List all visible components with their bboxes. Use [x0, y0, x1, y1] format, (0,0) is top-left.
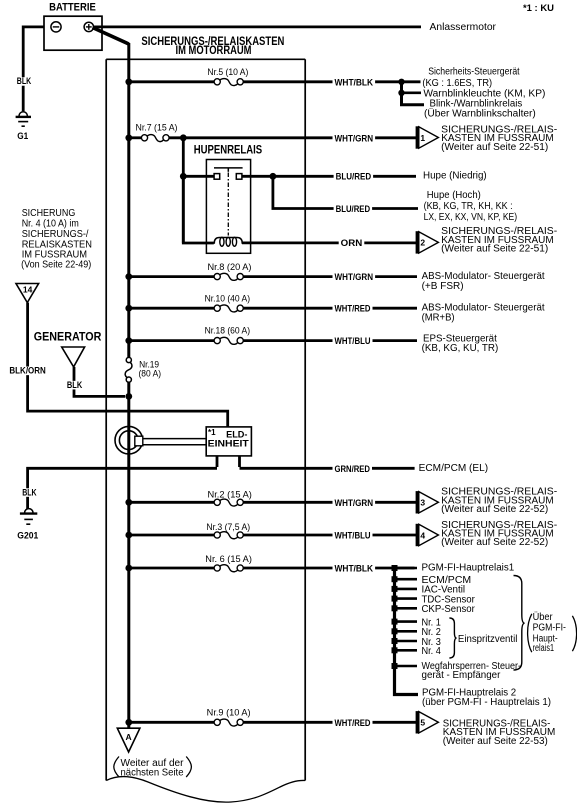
fuse Nr.2 (15 A) [214, 499, 220, 505]
connector triangle generator [62, 347, 85, 367]
fuse Nr.8 (20 A) [214, 274, 220, 280]
svg-text:(Über Warnblinkschalter): (Über Warnblinkschalter) [424, 108, 536, 120]
relay HUPENRELAIS box [206, 160, 250, 254]
svg-text:(KB, KG, KU, TR): (KB, KG, KU, TR) [422, 343, 499, 354]
wire stub to ECM/PCM [395, 578, 418, 581]
svg-text:LX, EX, KX, VN, KP, KE): LX, EX, KX, VN, KP, KE) [424, 212, 517, 223]
svg-text:nächsten Seite: nächsten Seite [121, 768, 184, 779]
svg-text:(Weiter auf Seite 22-52): (Weiter auf Seite 22-52) [441, 504, 548, 515]
wire bus to fuse Nr.18 [129, 339, 215, 342]
svg-text:BLK: BLK [17, 76, 32, 86]
node junction bus / fuse Nr.2 row [125, 499, 132, 506]
svg-text:(KG : 1.6ES, TR): (KG : 1.6ES, TR) [422, 78, 492, 89]
svg-text:Nr.10 (40 A): Nr.10 (40 A) [205, 294, 251, 304]
wire bus to fuse Nr.7 [129, 136, 142, 139]
node junction relay switch branch [180, 173, 187, 180]
svg-text:Einspritzventil: Einspritzventil [458, 634, 518, 645]
node junction bus / fuse Nr.8 row [125, 273, 132, 280]
wire stub to IAC-Ventil [395, 588, 418, 591]
svg-text:WHT/BLU: WHT/BLU [335, 531, 371, 541]
svg-text:ORN: ORN [341, 238, 363, 248]
svg-text:BLK: BLK [67, 380, 83, 390]
svg-text:(MR+B): (MR+B) [422, 313, 455, 324]
svg-text:BLK/ORN: BLK/ORN [9, 366, 45, 376]
label BLK battery ground wire [15, 77, 33, 86]
sensor twin leads to ELD unit [143, 438, 207, 440]
label BLU/RED Hupe Niedrig [334, 173, 374, 182]
label WHT/GRN row Nr.8 [333, 273, 376, 282]
fuse Nr.10 (40 A) [214, 305, 220, 311]
wire relay feed to switch contact [183, 175, 214, 178]
node junction generator / bus [125, 393, 132, 400]
note Weiter auf der naechsten Seite [114, 757, 119, 778]
wire fuse Nr.8 to ABS-Modulator [243, 275, 417, 278]
connector triangle 14 [16, 284, 39, 303]
wire stub to Nr. 4 [395, 649, 418, 652]
svg-text:Hupe (Hoch): Hupe (Hoch) [427, 190, 481, 201]
brace Einspritzventil group Nr.1-4 [449, 618, 456, 658]
ELD pin right / wire GRN/RED to ECM/PCM (EL) [240, 456, 415, 468]
label WHT/RED row Nr.10 [333, 305, 373, 314]
node junction bus / fuse Nr.9 row [125, 719, 132, 726]
svg-text:(Weiter auf Seite 22-52): (Weiter auf Seite 22-52) [441, 537, 548, 548]
wire fuse Nr.9 to connector 5 [243, 721, 417, 724]
fuse Nr.18 (60 A) [214, 338, 220, 344]
svg-text:Anlassermotor: Anlassermotor [430, 21, 497, 33]
svg-text:2: 2 [420, 238, 425, 248]
label WHT/BLU row Nr.3 [333, 531, 373, 540]
label WHT/GRN row Nr.7 [333, 134, 376, 143]
wire bus to fuse Nr.8 [129, 275, 215, 278]
svg-text:gerät - Empfänger: gerät - Empfänger [422, 670, 502, 681]
label BLK/ORN [7, 367, 47, 376]
svg-text:Nr.7 (15 A): Nr.7 (15 A) [136, 123, 178, 133]
wire stub to Nr. 1 [395, 620, 418, 623]
relay switch contact [214, 167, 243, 169]
wire battery positive to Anlassermotor [93, 25, 421, 28]
svg-text:WHT/BLK: WHT/BLK [335, 77, 374, 87]
svg-text:WHT/GRN: WHT/GRN [335, 498, 374, 508]
svg-text:HUPENRELAIS: HUPENRELAIS [194, 143, 263, 157]
node junction bus / fuse Nr.10 row [125, 305, 132, 312]
label BLU/RED Hupe Hoch [334, 205, 373, 214]
svg-text:Sicherheits-Steuergerät: Sicherheits-Steuergerät [428, 67, 520, 78]
connector arrow 1 to Sicherungskasten Fussraum [416, 126, 419, 148]
wire stub to Wegfahrsperren- Steuer- [395, 665, 418, 668]
label BLK generator [65, 381, 84, 390]
wire relay coil to connector 2 (ORN) [242, 241, 416, 244]
wire generator to bus (BLK) [74, 367, 125, 397]
connector arrow 3 to Sicherungskasten Fussraum [416, 491, 419, 513]
wire battery positive diagonal to main bus [93, 28, 129, 45]
node junction bus / fuse Nr.18 row [125, 337, 132, 344]
connector triangle A (continues next page) [117, 728, 140, 752]
wire fuse Nr.3 to connector 4 [243, 534, 417, 537]
node junction Hupe branch [270, 173, 277, 180]
svg-text:14: 14 [23, 285, 33, 295]
node junction bus / fuse Nr.6 row [125, 565, 132, 572]
svg-text:PGM-FI-Hauptrelais1: PGM-FI-Hauptrelais1 [422, 562, 515, 573]
svg-text:WHT/GRN: WHT/GRN [335, 133, 374, 143]
svg-text:WHT/RED: WHT/RED [335, 718, 371, 728]
wire stub to PGM-FI-Hauptrelais1 [395, 567, 418, 570]
svg-text:1: 1 [420, 133, 425, 143]
current sensor ring (ELD) [115, 426, 143, 454]
svg-text:(+B FSR): (+B FSR) [422, 281, 464, 292]
wire connector 14 to ELD unit (BLK/ORN) [28, 303, 228, 428]
svg-text:(Weiter auf Seite 22-53): (Weiter auf Seite 22-53) [443, 736, 548, 747]
svg-text:WHT/RED: WHT/RED [335, 304, 371, 314]
svg-text:EINHEIT: EINHEIT [208, 439, 249, 450]
svg-text:G201: G201 [17, 531, 39, 542]
wire fuse Nr.2 to connector 3 [243, 501, 417, 504]
svg-text:(Von Seite 22-49): (Von Seite 22-49) [21, 259, 91, 271]
node branch bracket PGM-FI loads [395, 568, 419, 695]
svg-text:(80 A): (80 A) [139, 369, 162, 379]
connector arrow 2 to Sicherungskasten Fussraum [416, 231, 419, 253]
svg-text:Nr.9 (10 A): Nr.9 (10 A) [207, 707, 251, 717]
svg-text:(Weiter auf Seite 22-51): (Weiter auf Seite 22-51) [441, 244, 548, 255]
box torn-edge wave bottom [106, 777, 305, 803]
parenthesis left (Ueber) [528, 614, 532, 652]
brace Ueber PGM-FI group [514, 576, 525, 671]
connector arrow 4 to Sicherungskasten Fussraum [416, 524, 419, 546]
wire main bus below fuse Nr.19 [127, 382, 130, 729]
svg-text:GRN/RED: GRN/RED [335, 464, 371, 474]
svg-text:Hupe (Niedrig): Hupe (Niedrig) [423, 171, 487, 182]
wire branch to Hupe (Hoch) [273, 176, 418, 208]
node junction bus / fuse Nr.5 row [125, 78, 132, 85]
wire fuse Nr.7 to connector 1 [169, 136, 417, 139]
svg-text:G1: G1 [17, 131, 29, 142]
node junction bus / fuse Nr.7 row [125, 134, 132, 141]
fuse Nr.9 (10 A) [214, 719, 220, 725]
wire relay coil feed (left) [183, 176, 214, 243]
wire fuse Nr.10 to ABS-Modulator [243, 307, 417, 310]
svg-text:Nr. 4: Nr. 4 [422, 646, 442, 657]
svg-text:Nr.5 (10 A): Nr.5 (10 A) [207, 67, 248, 77]
svg-text:(Weiter auf Seite 22-51): (Weiter auf Seite 22-51) [441, 142, 548, 153]
svg-text:relais1: relais1 [533, 643, 555, 654]
wire fuse Nr.18 to EPS-Steuergeraet [243, 339, 417, 342]
fuse Nr.7 (15 A) [141, 135, 147, 141]
wire relay switch to Hupe (Niedrig) [242, 175, 416, 178]
svg-text:Nr. 6 (15 A): Nr. 6 (15 A) [205, 554, 252, 564]
svg-text:BLU/RED: BLU/RED [336, 204, 371, 214]
label WHT/BLU row Nr.18 [333, 337, 373, 346]
svg-text:3: 3 [420, 498, 425, 508]
label WHT/BLK row Nr.5 [333, 78, 376, 87]
fuse Nr. 6 (15 A) [214, 565, 220, 571]
ground G1 [19, 112, 27, 116]
node junction Nr.7 row / relay feed [180, 134, 187, 141]
wire bus to fuse Nr.3 [129, 534, 215, 537]
svg-text:*1: *1 [208, 428, 216, 437]
wire main bus vertical from battery [127, 43, 130, 358]
wire bus to fuse Nr.9 [129, 721, 215, 724]
relay coil [207, 238, 251, 244]
wire stub to CKP-Sensor [395, 607, 418, 610]
svg-text:BATTERIE: BATTERIE [49, 2, 96, 14]
label ORN [339, 239, 365, 248]
svg-text:Nr.18 (60 A): Nr.18 (60 A) [205, 326, 251, 336]
wire stub to Nr. 2 [395, 630, 418, 633]
svg-text:WHT/BLU: WHT/BLU [335, 336, 371, 346]
label GRN/RED [333, 465, 373, 474]
svg-text:BLU/RED: BLU/RED [336, 172, 372, 182]
svg-text:Nr.8 (20 A): Nr.8 (20 A) [208, 262, 252, 272]
fuse Nr.19 (80 A) vertical on bus [126, 357, 131, 362]
wire bus to fuse Nr.5 [129, 80, 215, 83]
label WHT/GRN row Nr.2 [333, 499, 376, 508]
svg-text:(über PGM-FI - Hauptrelais 1): (über PGM-FI - Hauptrelais 1) [422, 697, 551, 708]
svg-text:Nr.3 (7,5 A): Nr.3 (7,5 A) [206, 522, 250, 532]
wire fuse Nr.5 to Sicherheits-Steuergeraet branch [243, 80, 421, 83]
label WHT/BLK row Nr.6 [333, 564, 376, 573]
ELD pin left to ground G201 [28, 456, 217, 509]
svg-text:WHT/BLK: WHT/BLK [335, 564, 374, 574]
svg-text:(KB, KG, TR, KH, KK :: (KB, KG, TR, KH, KK : [424, 201, 513, 212]
label WHT/RED row Nr.9 [333, 719, 373, 728]
fuse/relay box SICHERUNGS-/RELAISKASTEN IM MOTORRAUM outline [106, 58, 305, 60]
ground G201 [25, 509, 33, 513]
svg-text:Über: Über [533, 611, 554, 623]
ELD unit box [206, 427, 251, 456]
wire bus to fuse Nr.10 [129, 307, 215, 310]
fuse Nr.5 (10 A) [214, 79, 220, 85]
svg-text:*1 : KU: *1 : KU [523, 3, 554, 14]
svg-text:ECM/PCM (EL): ECM/PCM (EL) [419, 463, 488, 474]
wire stub to TDC-Sensor [395, 597, 418, 600]
svg-text:Nr.2 (15 A): Nr.2 (15 A) [208, 489, 252, 499]
relay actuation dashed link [227, 173, 229, 236]
svg-text:IM MOTORRAUM: IM MOTORRAUM [176, 45, 252, 57]
wire stub to Nr. 3 [395, 640, 418, 643]
connector arrow 5 to Sicherungskasten Fussraum [416, 711, 419, 733]
svg-text:PGM-FI-: PGM-FI- [533, 623, 566, 634]
svg-text:A: A [126, 732, 132, 742]
node junction bus / fuse Nr.3 row [125, 532, 132, 539]
parenthesis right (Ueber) [572, 616, 576, 651]
relay HUPENRELAIS feed wire [182, 138, 185, 243]
svg-text:WHT/GRN: WHT/GRN [335, 272, 374, 282]
fuse Nr.3 (7,5 A) [214, 532, 220, 538]
wire bus to fuse Nr.6 [129, 567, 215, 570]
wire battery negative to ground G1 [23, 27, 44, 111]
svg-text:GENERATOR: GENERATOR [34, 331, 102, 343]
svg-text:BLK: BLK [22, 487, 37, 497]
wire fuse Nr.6 to PGM-FI branch [243, 567, 415, 570]
svg-text:4: 4 [420, 530, 425, 540]
node branch bracket row Nr.5 [402, 82, 425, 105]
label BLK ELD ground [20, 488, 38, 497]
battery BATTERIE [44, 16, 102, 50]
wire stub to Warnblinkleuchte [402, 92, 422, 95]
wire bus to fuse Nr.2 [129, 501, 215, 504]
svg-text:5: 5 [420, 718, 425, 728]
svg-text:CKP-Sensor: CKP-Sensor [422, 604, 476, 615]
